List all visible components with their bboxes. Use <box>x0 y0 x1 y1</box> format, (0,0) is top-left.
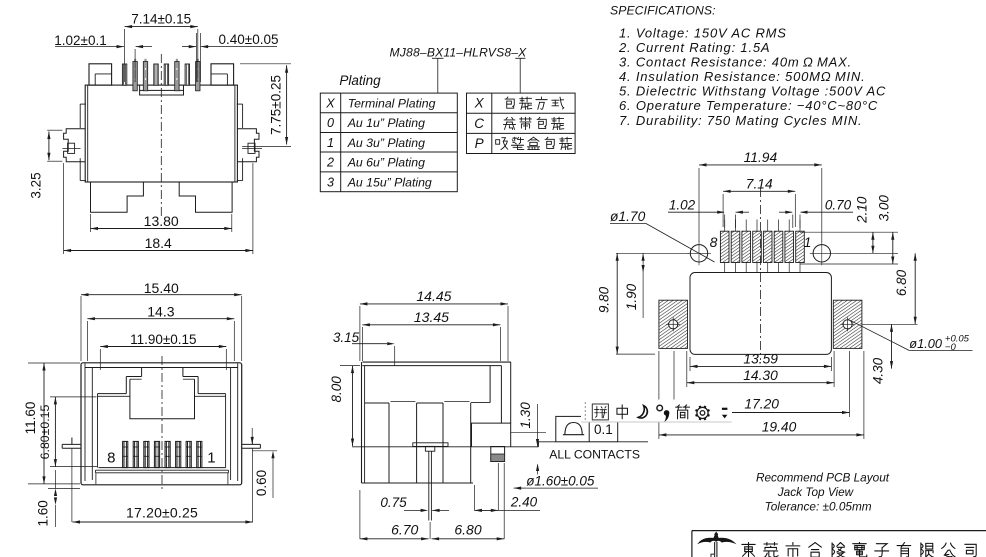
svg-text:13.80: 13.80 <box>144 213 179 229</box>
svg-text:P: P <box>475 136 484 151</box>
svg-text:6.80: 6.80 <box>894 269 909 296</box>
svg-text:Recommend PCB Layout: Recommend PCB Layout <box>756 471 890 485</box>
svg-text:4. Insulation Resistance: 5: 4. Insulation Resistance: 500MΩ MIN. <box>619 69 866 84</box>
svg-text:1.90: 1.90 <box>624 283 639 310</box>
svg-text:2.10: 2.10 <box>855 196 870 224</box>
svg-text:6. Operature Temperature: −: 6. Operature Temperature: −40°C~80°C <box>619 98 878 113</box>
svg-text:2: 2 <box>326 155 334 169</box>
svg-text:6.80±0.15: 6.80±0.15 <box>38 405 52 460</box>
svg-text:7. Durability: 750 Mating: 7. Durability: 750 Mating Cycles MIN. <box>619 113 862 128</box>
svg-text:1.60: 1.60 <box>36 500 51 526</box>
svg-text:6.70: 6.70 <box>391 521 418 537</box>
svg-text:1: 1 <box>207 449 215 466</box>
svg-text:1: 1 <box>804 234 812 250</box>
svg-text:Au 1u” Plating: Au 1u” Plating <box>347 116 425 130</box>
svg-text:5. Dielectric Withstang Vol: 5. Dielectric Withstang Voltage :500V AC <box>619 84 886 99</box>
svg-text:−0: −0 <box>945 342 957 353</box>
svg-text:3: 3 <box>327 175 334 189</box>
svg-text:14.30: 14.30 <box>743 368 778 383</box>
svg-text:ø1.70: ø1.70 <box>610 209 646 224</box>
svg-text:17.20: 17.20 <box>744 396 779 411</box>
svg-text:Au 3u” Plating: Au 3u” Plating <box>347 136 425 150</box>
svg-text:13.59: 13.59 <box>743 352 778 367</box>
svg-text:2. Current Rating: 1.5A: 2. Current Rating: 1.5A <box>618 40 770 55</box>
svg-text:3. Contact Resistance: 40m: 3. Contact Resistance: 40m Ω MAX. <box>619 55 852 70</box>
svg-text:Au 15u” Plating: Au 15u” Plating <box>347 175 432 189</box>
svg-text:SPECIFICATIONS:: SPECIFICATIONS: <box>610 4 716 18</box>
svg-text:8.00: 8.00 <box>329 376 344 403</box>
svg-text:Au 6u” Plating: Au 6u” Plating <box>347 155 425 169</box>
svg-text:8: 8 <box>710 234 718 250</box>
svg-text:ALL CONTACTS: ALL CONTACTS <box>549 448 640 462</box>
svg-text:1: 1 <box>327 136 334 150</box>
svg-text:0.40±0.05: 0.40±0.05 <box>219 32 279 47</box>
svg-text:1.30: 1.30 <box>518 402 533 429</box>
svg-text:11.94: 11.94 <box>744 150 778 165</box>
svg-text:Tolerance: ±0.05mm: Tolerance: ±0.05mm <box>765 500 872 514</box>
svg-text:15.40: 15.40 <box>144 280 179 296</box>
svg-text:1.02: 1.02 <box>669 197 696 212</box>
svg-text:11.90±0.15: 11.90±0.15 <box>130 332 196 347</box>
svg-text:3.25: 3.25 <box>28 172 43 198</box>
svg-text:3.15: 3.15 <box>333 330 360 345</box>
svg-text:7.14: 7.14 <box>746 177 773 192</box>
svg-text:18.4: 18.4 <box>145 235 172 251</box>
svg-text:0: 0 <box>327 116 334 130</box>
svg-text:1. Voltage: 150V AC RMS: 1. Voltage: 150V AC RMS <box>619 26 787 41</box>
svg-text:11.60: 11.60 <box>23 402 38 435</box>
svg-text:9.80: 9.80 <box>596 286 611 313</box>
svg-text:0.70: 0.70 <box>825 197 852 212</box>
svg-text:0.60: 0.60 <box>254 470 269 496</box>
svg-text:Terminal Plating: Terminal Plating <box>348 96 436 110</box>
svg-text:ø1.60±0.05: ø1.60±0.05 <box>526 473 595 488</box>
svg-text:0.1: 0.1 <box>594 422 613 437</box>
svg-text:6.80: 6.80 <box>454 521 481 537</box>
svg-text:Plating: Plating <box>339 73 381 88</box>
svg-text:7.75±0.25: 7.75±0.25 <box>269 75 284 135</box>
svg-text:13.45: 13.45 <box>414 309 449 325</box>
svg-text:ø1.00: ø1.00 <box>909 336 943 351</box>
svg-text:C: C <box>474 116 484 131</box>
svg-text:7.14±0.15: 7.14±0.15 <box>131 12 191 27</box>
svg-text:14.45: 14.45 <box>416 288 451 304</box>
svg-text:17.20±0.25: 17.20±0.25 <box>126 505 198 521</box>
svg-text:3.00: 3.00 <box>876 195 891 222</box>
svg-text:14.3: 14.3 <box>147 303 174 319</box>
svg-text:8: 8 <box>107 449 115 466</box>
svg-text:2.40: 2.40 <box>510 494 538 509</box>
svg-text:X: X <box>474 96 485 111</box>
svg-text:19.40: 19.40 <box>762 419 797 434</box>
svg-text:0.75: 0.75 <box>380 495 407 510</box>
svg-text:MJ88–BX11–HLRVS8–X: MJ88–BX11–HLRVS8–X <box>390 46 528 60</box>
svg-text:Jack Top View: Jack Top View <box>777 485 855 499</box>
svg-text:1.02±0.1: 1.02±0.1 <box>54 33 106 48</box>
svg-text:4.30: 4.30 <box>871 357 886 384</box>
svg-text:X: X <box>325 96 335 110</box>
